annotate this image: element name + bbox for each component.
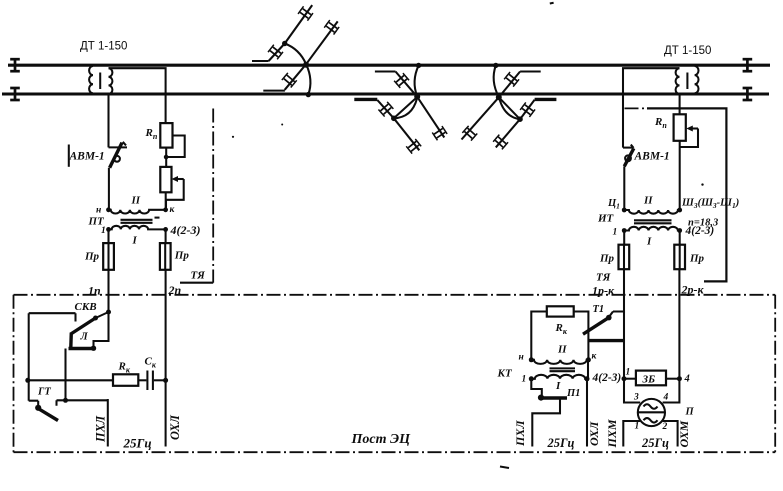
svg-text:3: 3 bbox=[633, 393, 639, 403]
converter terminal 3 bbox=[624, 379, 640, 403]
svg-text:к: к bbox=[592, 352, 598, 362]
transformer KT core bbox=[550, 368, 576, 371]
wire Rk right side down to node k bbox=[574, 312, 589, 360]
fuse Pr (right leg) bbox=[160, 243, 189, 270]
switch AVM-1 (right) blade bbox=[624, 145, 634, 167]
node k of transformer PT bbox=[163, 205, 175, 215]
right block boundary box bbox=[625, 108, 727, 281]
label PHM bbox=[605, 419, 619, 448]
stray ink speck top middle bbox=[550, 2, 554, 5]
svg-text:I: I bbox=[132, 235, 138, 247]
contact GT pivot bbox=[29, 401, 42, 411]
svg-text:ТЯ: ТЯ bbox=[191, 270, 206, 282]
resistor Rp (right) bbox=[674, 114, 686, 141]
pin 1 of transformer PT bbox=[101, 226, 111, 236]
wire PHL feed (left) bbox=[107, 399, 109, 447]
insulated joint left, bottom rail bbox=[10, 87, 20, 100]
svg-text:ОХЛ: ОХЛ bbox=[587, 421, 601, 446]
node n of transformer PT bbox=[96, 206, 111, 216]
svg-text:ДТ 1-150: ДТ 1-150 bbox=[664, 45, 711, 57]
wire k to pin 4 bbox=[587, 360, 589, 379]
turnout 2 diagonal from thick stub to frog dot bbox=[377, 100, 394, 118]
turnout 3 diagonal from thick stub to frog dot bbox=[520, 100, 535, 119]
svg-text:I: I bbox=[646, 236, 652, 248]
svg-text:1: 1 bbox=[613, 228, 618, 238]
transformer KT winding I bbox=[531, 375, 587, 379]
transformer PT winding II label bbox=[131, 195, 141, 207]
node k of transformer KT bbox=[586, 352, 598, 363]
turnout 1 frog curve to top rail bbox=[285, 44, 306, 65]
wire from adjuster tap (right Rp) bbox=[680, 129, 698, 148]
transformer PT core bbox=[121, 218, 160, 223]
pin 4 of transformer KT bbox=[585, 372, 622, 384]
wire Rk to Ck bbox=[138, 379, 146, 381]
contact T1 fixed terminal bbox=[606, 312, 613, 321]
svg-text:ПХЛ: ПХЛ bbox=[94, 415, 108, 443]
insulated joint on turnout 3 down-left diagonal bbox=[462, 126, 477, 141]
fuse Pr (right block left leg) bbox=[599, 245, 629, 270]
pin 4 of transformer IT bbox=[677, 225, 714, 237]
wire bottom rail bbox=[2, 92, 769, 95]
transformer KT winding II label bbox=[557, 344, 567, 356]
wire GT horizontal to PHL feed bbox=[57, 400, 108, 406]
svg-text:4(2-3): 4(2-3) bbox=[170, 223, 201, 237]
svg-text:АВМ-1: АВМ-1 bbox=[634, 151, 670, 163]
svg-text:ГТ: ГТ bbox=[37, 387, 51, 398]
svg-text:Rк: Rк bbox=[118, 361, 131, 375]
adjuster arrow into Rp (right) bbox=[686, 126, 698, 132]
contact P1 pivot bbox=[538, 395, 544, 401]
converter terminal 1 to PHM feed bbox=[623, 421, 640, 447]
contact P1 label bbox=[566, 388, 580, 399]
terminal label 2r-k bbox=[681, 283, 705, 297]
wire Rp to node Sh3 bbox=[679, 141, 681, 210]
svg-text:I: I bbox=[555, 380, 561, 392]
svg-text:1: 1 bbox=[635, 422, 640, 432]
resistor Rp (left) label bbox=[145, 127, 158, 141]
svg-text:ОХМ: ОХМ bbox=[677, 420, 691, 447]
turnout 1 main diagonal track (upper part) bbox=[285, 5, 313, 43]
node frog dot turnout 2 bbox=[391, 116, 397, 122]
wire to resistor Rk bbox=[28, 379, 113, 381]
turnout 2 connecting curve between rails bbox=[415, 65, 419, 96]
contact L label bbox=[80, 332, 89, 343]
node on turnout 1 diagonal bbox=[282, 41, 287, 46]
terminal label 1p bbox=[88, 284, 101, 298]
label OHL (left) bbox=[168, 415, 182, 440]
label OHL (right) bbox=[587, 421, 601, 446]
wire pin4 to fuse (right leg) bbox=[165, 229, 167, 243]
svg-text:II: II bbox=[557, 344, 567, 356]
switch AVM-1 (left) blade bbox=[110, 142, 126, 168]
insulated joint on turnout 2 frog diagonal bbox=[406, 139, 421, 154]
svg-text:4: 4 bbox=[663, 393, 669, 403]
svg-text:ОХЛ: ОХЛ bbox=[168, 415, 182, 440]
fuse Pr (right block right leg) bbox=[674, 231, 704, 270]
svg-text:КТ: КТ bbox=[497, 368, 513, 380]
rectifier ZB box bbox=[636, 371, 666, 386]
wire ZB output to 2r-k node bbox=[666, 374, 690, 385]
wire pin 4 down OHL (right) bbox=[586, 379, 588, 447]
resistor Rp (left) lower adjustable section bbox=[160, 167, 171, 192]
stray ink speck right block bbox=[701, 183, 703, 185]
svg-text:II: II bbox=[643, 195, 653, 207]
transformer IT core bbox=[634, 220, 672, 223]
svg-text:1: 1 bbox=[522, 375, 527, 385]
svg-text:ТЯ: ТЯ bbox=[596, 272, 611, 284]
relay room boundary dash-dot top bbox=[14, 294, 776, 296]
wire top rail bbox=[8, 64, 770, 67]
switch AVM-1 (right) label bbox=[634, 151, 670, 163]
transformer IT winding II bbox=[624, 210, 680, 214]
node below Rp upper section bbox=[164, 155, 169, 160]
svg-text:Л: Л bbox=[80, 332, 89, 343]
wire AVM-1 (right) to node II1 bbox=[623, 166, 625, 209]
transformer KT winding II bbox=[531, 360, 588, 364]
generator GT label bbox=[37, 387, 51, 398]
wire AVM-1 to transformer node n bbox=[108, 168, 110, 210]
transformer IT winding II label bbox=[643, 195, 653, 207]
contact SKV label bbox=[75, 301, 97, 313]
wire pin1 to fuse (left) bbox=[107, 229, 109, 243]
wire L common down bbox=[64, 349, 66, 401]
contact P1 closed blade bar bbox=[541, 396, 567, 399]
node at ZB input bbox=[622, 368, 631, 382]
contact SKV blade bbox=[71, 318, 96, 334]
converter P circle with windings bbox=[638, 399, 665, 426]
label PHL (right) bbox=[513, 420, 527, 447]
transformer PT winding II bbox=[109, 210, 166, 214]
pin 1 of transformer IT bbox=[613, 228, 627, 238]
wire Rk left side down to node n bbox=[531, 312, 547, 360]
resistor Rk (right) bbox=[547, 306, 574, 316]
stray ink speck bottom bbox=[500, 467, 509, 469]
svg-text:П1: П1 bbox=[566, 388, 580, 399]
pin 4 of transformer PT bbox=[163, 223, 200, 237]
insulated joint on turnout 2 down-right diagonal bbox=[432, 126, 447, 140]
node at GT branch bbox=[63, 398, 68, 403]
converter terminal 2 to OHM feed bbox=[662, 421, 678, 447]
turnout 1 connecting curve to bottom rail bbox=[306, 64, 310, 94]
svg-text:ДТ 1-150: ДТ 1-150 bbox=[80, 41, 127, 53]
turnout 3 diagonal continuing down-left from frog dot bbox=[496, 119, 520, 147]
contact L blade bbox=[69, 333, 73, 348]
svg-text:25Гц: 25Гц bbox=[641, 436, 669, 450]
svg-text:ПХЛ: ПХЛ bbox=[513, 420, 527, 447]
resistor Rp (right) label bbox=[654, 116, 667, 130]
node Sh3 of transformer IT bbox=[677, 198, 739, 213]
switch AVM-1 (left) fixed contact stub bbox=[109, 146, 128, 148]
turnout 2 diagonal from node to frog dot bbox=[394, 97, 418, 118]
contact SKV fixed terminal on 1p wire bbox=[106, 310, 111, 315]
wire thick tap from k leg to 1r-k leg bbox=[588, 312, 624, 379]
transformer IT winding I label bbox=[646, 236, 652, 248]
shorting strap on Rp upper section bbox=[168, 136, 185, 158]
node lower fixed contact bbox=[91, 346, 96, 351]
label 25 Hz (right-left) bbox=[547, 436, 575, 450]
svg-text:ПХМ: ПХМ bbox=[605, 419, 619, 448]
label n=18,3 bbox=[688, 218, 718, 229]
svg-text:Rк: Rк bbox=[555, 322, 568, 336]
transformer PT winding I label bbox=[132, 235, 138, 247]
insulated joint on turnout 3 up-right diagonal bbox=[504, 72, 519, 87]
insulated joint on turnout 1 second diagonal bbox=[324, 20, 339, 34]
relay room boundary dash-dot left bbox=[13, 295, 15, 452]
insulated joint right, top rail bbox=[743, 59, 753, 72]
converter terminal 4 bbox=[663, 379, 680, 403]
transformer KT label bbox=[497, 368, 513, 380]
wire from DT2 secondary down to Rp (right) bbox=[679, 95, 681, 114]
transformer IT winding I bbox=[624, 227, 680, 231]
svg-text:Rп: Rп bbox=[654, 116, 667, 130]
wire Rp sections bbox=[165, 148, 167, 167]
turnout 3 connecting curve between rails bbox=[494, 65, 499, 97]
wire from DT1 secondary down to AVM-1 bbox=[107, 95, 109, 147]
svg-text:4: 4 bbox=[684, 374, 690, 385]
capacitor Ck label bbox=[145, 356, 157, 370]
transformer KT winding I label bbox=[555, 380, 561, 392]
turnout 1 branch track upper-left stub bbox=[252, 60, 269, 62]
svg-text:Пр: Пр bbox=[689, 253, 705, 265]
wire left vertical from SKV common to Rk wire bbox=[28, 313, 30, 401]
wire from DT1 secondary to Rp branch bbox=[109, 68, 166, 123]
node turnout 3 on bottom rail bbox=[496, 94, 502, 100]
switch AVM-1 (left) label bbox=[69, 151, 105, 163]
svg-text:Ск: Ск bbox=[145, 356, 157, 370]
svg-text:Ш3(Ш3-Ш1): Ш3(Ш3-Ш1) bbox=[681, 198, 739, 211]
turnout 2 thick stub track below bottom rail bbox=[354, 98, 377, 101]
transformer DT1 (left rail choke-transformer) bbox=[89, 66, 112, 94]
contact L common bar bbox=[69, 347, 96, 350]
svg-text:Т1: Т1 bbox=[593, 304, 605, 315]
svg-text:1: 1 bbox=[626, 368, 631, 378]
svg-text:25Гц: 25Гц bbox=[547, 436, 575, 450]
label PHL (left) bbox=[94, 415, 108, 443]
turnout 2 frog curve bbox=[394, 99, 417, 119]
label Post EC bbox=[351, 432, 412, 447]
turnout 1 lower stub track bbox=[263, 90, 285, 92]
turnout 1 second diagonal track up-right bbox=[306, 21, 338, 64]
resistor Rk (right) label bbox=[555, 322, 568, 336]
node frog dot turnout 3 bbox=[517, 116, 523, 122]
turnout 2 mid stub track bbox=[375, 70, 396, 72]
pin 1 of transformer KT bbox=[522, 375, 534, 385]
transformer DT1 label ДТ 1-150 (left) bbox=[80, 41, 127, 53]
switch AVM-1 (right) fixed contact stub bbox=[623, 147, 632, 149]
insulated joint on turnout 3 thick stub diagonal bbox=[520, 102, 535, 116]
transformer PT winding I bbox=[109, 226, 166, 230]
resistor Rp (left) upper section bbox=[160, 123, 172, 148]
resistor Rk (left) label bbox=[118, 361, 131, 375]
insulated joint on turnout 2 thick stub diagonal bbox=[378, 102, 393, 117]
terminal label 1r-k bbox=[592, 284, 615, 298]
insulated joint left, top rail bbox=[10, 59, 20, 72]
relay room boundary dash-dot bottom bbox=[14, 451, 776, 453]
wire from 1p to lower fixed contact bbox=[94, 312, 109, 347]
label 25 Hz (right-right) bbox=[641, 436, 669, 450]
transformer DT2 label ДТ 1-150 (right) bbox=[664, 45, 711, 57]
stray ink speck near left block bbox=[232, 124, 283, 138]
svg-text:Ц1: Ц1 bbox=[607, 198, 620, 211]
turnout 3 diagonal down-left bbox=[462, 97, 499, 139]
insulated joint on turnout 1 upper diagonal bbox=[298, 6, 313, 20]
turnout 3 frog curve bbox=[500, 99, 521, 119]
turnout 3 node on top rail bbox=[493, 63, 498, 68]
node turnout 2 on top rail bbox=[416, 63, 421, 68]
contact GT blade bbox=[40, 409, 59, 420]
node II1 of transformer IT bbox=[607, 198, 627, 212]
transformer PT label bbox=[88, 216, 106, 228]
wire fuse to 1r-k and T1 contact bbox=[613, 269, 624, 311]
svg-text:4(2-3): 4(2-3) bbox=[592, 372, 622, 384]
svg-text:к: к bbox=[170, 205, 176, 215]
label TYa (right block) bbox=[596, 272, 611, 284]
svg-text:АВМ-1: АВМ-1 bbox=[69, 151, 105, 163]
label 25 Hz (left) bbox=[123, 436, 152, 451]
converter P label bbox=[685, 407, 695, 418]
terminal label 2p bbox=[168, 283, 182, 297]
svg-text:ЗБ: ЗБ bbox=[642, 374, 656, 386]
wire P1 to PHL feed (right) bbox=[532, 398, 560, 447]
relay room boundary dash-dot right bbox=[774, 295, 776, 452]
fuse Pr (left leg) bbox=[84, 243, 114, 270]
contact T1 label bbox=[593, 304, 605, 315]
turnout 2 diagonal from stub to bottom rail node bbox=[396, 72, 418, 97]
resistor Rk (left) bbox=[113, 374, 138, 386]
turnout 3 thick stub track below bottom rail bbox=[535, 98, 557, 101]
insulated joint right, bottom rail bbox=[743, 87, 753, 100]
transformer DT2 (right rail choke-transformer) bbox=[676, 66, 699, 94]
wire from DT2 secondary to AVM-1 branch (right) bbox=[623, 68, 680, 147]
insulated joint on turnout 2 stub diagonal bbox=[394, 73, 409, 88]
node turnout 2 on bottom rail bbox=[414, 94, 420, 100]
wire ZB input bbox=[624, 378, 636, 380]
wire common feed to SKV bbox=[29, 313, 76, 321]
turnout 1 diagonal track down-left bbox=[285, 64, 306, 90]
wire fuse to 2r-k down to ZB node bbox=[678, 269, 680, 379]
svg-text:25Гц: 25Гц bbox=[123, 436, 152, 451]
insulated joint on turnout 1 lower diagonal bbox=[268, 45, 283, 60]
node n of transformer KT bbox=[519, 353, 534, 363]
adjuster arrow into Rp lower section bbox=[172, 176, 184, 182]
svg-text:2: 2 bbox=[662, 422, 668, 432]
wire Rp lower section to node k bbox=[165, 192, 167, 209]
insulated joint on turnout 3 frog diagonal bbox=[493, 135, 508, 150]
svg-text:П: П bbox=[685, 407, 695, 418]
turnout 3 diagonal up-right bbox=[499, 72, 520, 98]
wire fuse 2p down to OHL (left feed wire) bbox=[165, 270, 167, 447]
wire fuse to terminal 1p and SKV contact bbox=[107, 270, 109, 312]
svg-text:4(2-3): 4(2-3) bbox=[685, 225, 715, 237]
svg-text:II: II bbox=[131, 195, 141, 207]
svg-text:1: 1 bbox=[101, 226, 106, 236]
capacitor Ck bbox=[147, 371, 153, 391]
svg-text:н: н bbox=[96, 206, 101, 216]
svg-text:ИТ: ИТ bbox=[597, 213, 615, 225]
node turnout 1 on bottom rail bbox=[306, 92, 311, 97]
turnout 1 main diagonal track (lower part with joint) bbox=[269, 44, 285, 62]
transformer IT label bbox=[597, 213, 615, 225]
contact SKV upper fixed contact bbox=[93, 312, 109, 321]
turnout 3 mid stub track bbox=[520, 70, 541, 72]
node left end of Rk wire bbox=[25, 378, 30, 383]
insulated joint on turnout 1 down-left diagonal bbox=[282, 73, 297, 88]
wire Ck to 2p wire bbox=[154, 378, 168, 383]
svg-text:Пр: Пр bbox=[599, 253, 615, 265]
turnout 2 diagonal track down-right bbox=[417, 97, 444, 138]
wire pin1 to fuse (right block left leg) bbox=[623, 231, 625, 245]
tick line left of AVM-1 label bbox=[68, 145, 70, 167]
left block boundary dash-dot bbox=[180, 109, 213, 283]
svg-text:СКВ: СКВ bbox=[75, 301, 97, 313]
label OHM bbox=[677, 420, 691, 447]
svg-text:Пост ЭЦ: Пост ЭЦ bbox=[351, 432, 412, 447]
svg-text:Rп: Rп bbox=[145, 127, 158, 141]
contact T1 blade bbox=[583, 318, 609, 335]
wire from adjuster tap down to node k bbox=[166, 179, 184, 209]
turnout 3 diagonal from node to frog dot bbox=[499, 97, 520, 119]
turnout 2 diagonal continuing down-right from frog dot bbox=[394, 118, 420, 150]
svg-text:Пр: Пр bbox=[174, 250, 190, 262]
label TYa (left block) bbox=[191, 270, 206, 282]
wire pin 1 to contact P1 bbox=[531, 379, 542, 395]
node turnout 1 on top rail bbox=[303, 62, 309, 68]
svg-text:н: н bbox=[519, 353, 524, 363]
svg-text:Пр: Пр bbox=[84, 251, 100, 263]
